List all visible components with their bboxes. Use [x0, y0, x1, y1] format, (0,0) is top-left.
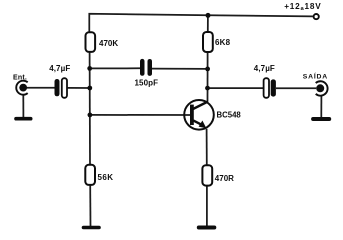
- ground output: [313, 117, 329, 121]
- svg-text:470R: 470R: [215, 174, 234, 183]
- svg-text:BC548: BC548: [217, 111, 242, 120]
- resistor 56K: [85, 165, 113, 185]
- terminal Ent. input: [13, 75, 28, 95]
- node collector-output junction: [205, 86, 210, 91]
- resistor 470R: [202, 165, 234, 185]
- capacitor C-out 4,7uF: [254, 64, 276, 98]
- wire 56K to ground: [89, 185, 91, 226]
- transistor Q1 BC548: [184, 100, 241, 130]
- svg-text:Ent.: Ent.: [13, 75, 27, 82]
- wire base lead: [90, 114, 191, 116]
- ground input: [16, 117, 31, 121]
- node base junction: [88, 113, 93, 118]
- ground 56K: [84, 226, 100, 230]
- svg-text:SAÍDA: SAÍDA: [303, 72, 328, 81]
- svg-text:56K: 56K: [98, 173, 114, 182]
- svg-text:4,7µF: 4,7µF: [49, 64, 70, 73]
- node base-input junction: [87, 86, 92, 91]
- node top rail junction: [206, 13, 211, 18]
- wire collector output branch: [208, 87, 264, 89]
- wire top rail: [89, 14, 313, 33]
- ground 470R: [199, 226, 215, 230]
- wire output terminal to ground: [320, 96, 322, 118]
- wire input to base node: [27, 87, 55, 89]
- resistor 6K8: [203, 32, 231, 52]
- capacitor 150pF: [135, 59, 159, 88]
- svg-text:4,7µF: 4,7µF: [254, 64, 275, 73]
- terminal SAIDA output: [303, 72, 328, 96]
- wire emitter to 470R: [206, 129, 208, 165]
- node collector-150pF junction: [205, 67, 210, 72]
- wire input terminal to ground: [22, 95, 24, 118]
- wire left vertical 470K to 56K: [89, 52, 91, 165]
- wire 150pF branch: [90, 67, 140, 69]
- svg-text:6K8: 6K8: [215, 38, 231, 47]
- wire 6K8 top: [207, 15, 209, 32]
- resistor 470K: [86, 32, 119, 52]
- node base-150pF junction: [87, 66, 92, 71]
- wire 470R to ground: [206, 186, 208, 226]
- wire 6K8 bottom to collector node: [207, 52, 209, 102]
- svg-text:150pF: 150pF: [135, 78, 159, 87]
- svg-text:470K: 470K: [99, 39, 118, 48]
- capacitor C-in 4,7uF: [49, 64, 70, 98]
- terminal +12a18V supply: [284, 2, 321, 19]
